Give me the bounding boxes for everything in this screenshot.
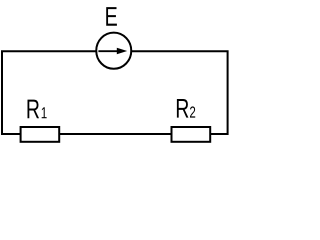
- resistor R1 (box): [21, 127, 60, 142]
- current source U1 : circle body: [96, 33, 131, 69]
- resistor R2 (box): [172, 127, 211, 142]
- current source arrow (head): [117, 48, 127, 55]
- label E (source value): [106, 7, 117, 26]
- wire : outer circuit loop (top, right, bottom, left sides): [2, 51, 228, 134]
- current source arrow (shaft): [98, 50, 118, 52]
- label R2 : letter R: [177, 99, 189, 118]
- label R1 : subscript 1: [42, 107, 47, 118]
- label R1 : letter R: [27, 100, 39, 119]
- label R2 : subscript 2: [190, 106, 195, 117]
